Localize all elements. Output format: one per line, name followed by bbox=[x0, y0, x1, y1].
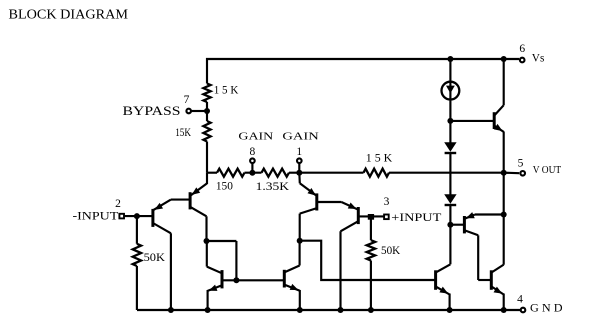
svg-text:50K: 50K bbox=[144, 252, 166, 264]
resistor R4 1.35K bbox=[256, 169, 289, 193]
pin 2 terminal bbox=[119, 214, 124, 219]
node pin8 bbox=[249, 170, 255, 176]
transistor Q5 bbox=[207, 241, 222, 310]
node top rail / current source bbox=[447, 56, 453, 62]
node bbox=[205, 307, 211, 313]
wire bbox=[504, 172, 520, 175]
resistor R6 50K (-input) bbox=[133, 244, 166, 266]
transistor Q6 bbox=[284, 241, 300, 310]
wire mirror base line bbox=[223, 279, 283, 281]
wire bbox=[370, 261, 372, 311]
svg-text:6: 6 bbox=[519, 43, 525, 55]
label V OUT bbox=[533, 165, 562, 176]
transistor Q4 bbox=[299, 173, 317, 241]
wire bbox=[299, 172, 363, 174]
svg-text:4: 4 bbox=[517, 294, 523, 306]
wire bbox=[289, 172, 299, 174]
resistor R2 15K (lower) bbox=[175, 121, 210, 142]
wire bbox=[206, 142, 208, 173]
wire bbox=[207, 241, 237, 280]
pin 8 terminal bbox=[250, 158, 255, 163]
node -input/50K bbox=[134, 213, 140, 219]
pin 5 label bbox=[518, 157, 524, 169]
resistor R5 15K (feedback) bbox=[364, 152, 393, 176]
transistor Q8 bbox=[464, 212, 503, 280]
wire top supply rail bbox=[206, 58, 519, 60]
svg-text:1 5 K: 1 5 K bbox=[366, 152, 392, 164]
pin 6 terminal bbox=[520, 58, 525, 63]
wire Q2 emitter stub bbox=[206, 173, 208, 184]
wire bbox=[136, 216, 138, 244]
wire second stage bbox=[300, 241, 435, 280]
resistor R7 50K (+input) bbox=[367, 240, 401, 260]
svg-text:150: 150 bbox=[216, 180, 233, 192]
wire gain line bbox=[207, 172, 217, 174]
node Q7 base bbox=[447, 118, 453, 124]
node bbox=[368, 307, 374, 313]
svg-text:1: 1 bbox=[296, 146, 302, 158]
transistor Q2 bbox=[171, 183, 207, 241]
node mirror base bbox=[233, 277, 239, 283]
pin 5 terminal bbox=[520, 171, 525, 176]
svg-text:15K: 15K bbox=[175, 127, 191, 139]
label +INPUT bbox=[391, 210, 442, 224]
pin 7 terminal bbox=[186, 109, 191, 114]
label Vs bbox=[532, 52, 545, 64]
wire bbox=[206, 58, 208, 84]
svg-text:G N D: G N D bbox=[530, 303, 563, 315]
wire Q7 base bbox=[450, 120, 493, 122]
wire Q3 base bbox=[358, 215, 384, 217]
resistor R3 150 bbox=[216, 169, 245, 193]
node first mirror bbox=[204, 238, 210, 244]
wire bbox=[503, 132, 505, 173]
pin 1 terminal bbox=[297, 158, 302, 163]
transistor Q7 bbox=[494, 59, 504, 132]
node +input/50K bbox=[368, 214, 374, 220]
node bbox=[297, 307, 303, 313]
wire bbox=[136, 266, 138, 310]
svg-text:GAIN: GAIN bbox=[282, 132, 319, 143]
wire bypass stub bbox=[191, 110, 207, 112]
pin 6 label bbox=[519, 43, 525, 55]
wire bbox=[449, 99, 451, 143]
svg-text:GAIN: GAIN bbox=[238, 132, 273, 143]
node top rail / Q7 collector bbox=[501, 56, 507, 62]
pin 2 label bbox=[115, 198, 121, 210]
wire bbox=[370, 216, 372, 240]
label GAIN GAIN bbox=[238, 132, 319, 143]
svg-text:7: 7 bbox=[184, 94, 190, 106]
wire bbox=[389, 172, 504, 174]
wire bbox=[449, 225, 451, 265]
wire bbox=[449, 205, 451, 225]
svg-text:1.35K: 1.35K bbox=[256, 181, 289, 193]
wire bbox=[206, 102, 208, 121]
node second stage takeoff bbox=[297, 238, 303, 244]
node Q8 emitter junction bbox=[501, 212, 507, 218]
transistor Q1 bbox=[153, 200, 171, 310]
diode D2 bbox=[444, 194, 456, 205]
transistor Q10 bbox=[478, 265, 504, 310]
pin 4 terminal bbox=[521, 308, 526, 313]
node bypass bbox=[204, 108, 210, 114]
node vout bbox=[501, 170, 507, 176]
label -INPUT bbox=[73, 209, 120, 223]
svg-text:V OUT: V OUT bbox=[533, 165, 562, 176]
node bbox=[501, 307, 507, 313]
node bbox=[447, 307, 453, 313]
node bbox=[338, 307, 344, 313]
label GND bbox=[530, 303, 563, 315]
svg-text:BLOCK DIAGRAM: BLOCK DIAGRAM bbox=[9, 7, 128, 22]
wire Q8 base bbox=[450, 224, 463, 226]
current source I1 bbox=[442, 82, 460, 100]
pin 4 label bbox=[517, 294, 523, 306]
svg-text:Vs: Vs bbox=[532, 52, 545, 64]
wire -input bbox=[124, 215, 152, 217]
svg-text:+INPUT: +INPUT bbox=[391, 210, 442, 224]
pin 8 label bbox=[250, 146, 256, 158]
svg-text:BYPASS: BYPASS bbox=[123, 104, 181, 118]
wire bbox=[503, 173, 505, 265]
pin 3 label bbox=[384, 196, 390, 208]
svg-text:-INPUT: -INPUT bbox=[73, 209, 120, 223]
svg-text:50K: 50K bbox=[381, 245, 401, 257]
transistor Q9 bbox=[436, 264, 451, 310]
pin 3 terminal bbox=[384, 215, 389, 220]
title bbox=[9, 7, 128, 22]
diode D1 bbox=[444, 142, 456, 153]
resistor R1 15K (upper) bbox=[203, 84, 238, 103]
svg-text:5: 5 bbox=[518, 157, 524, 169]
transistor Q3 bbox=[317, 202, 359, 310]
wire bbox=[449, 153, 451, 195]
node bbox=[168, 307, 174, 313]
svg-text:8: 8 bbox=[250, 146, 256, 158]
pin 7 label bbox=[184, 94, 190, 106]
wire pin8 stem bbox=[251, 163, 253, 173]
wire pin1 stem bbox=[298, 163, 300, 173]
svg-text:1 5 K: 1 5 K bbox=[214, 85, 239, 97]
wire bbox=[245, 172, 262, 174]
wire ground rail bbox=[137, 309, 520, 311]
node Q8 base bbox=[447, 222, 453, 228]
node pin1 bbox=[296, 170, 302, 176]
svg-text:3: 3 bbox=[384, 196, 390, 208]
pin 1 label bbox=[296, 146, 302, 158]
label BYPASS bbox=[123, 104, 181, 118]
wire bbox=[449, 59, 451, 82]
